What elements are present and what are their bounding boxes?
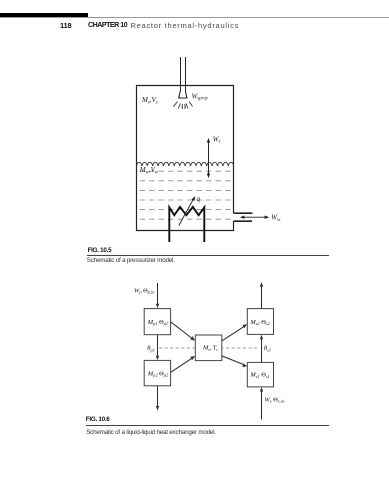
svg-text:Ws: Ws (213, 135, 221, 144)
svg-text:Wp Θp,in: Wp Θp,in (134, 287, 155, 295)
svg-text:θp1: θp1 (147, 345, 155, 352)
svg-text:Ww: Ww (271, 214, 281, 223)
svg-text:Mt, Tt: Mt, Tt (202, 345, 218, 352)
svg-text:Ws Θs,in: Ws Θs,in (265, 396, 285, 404)
svg-text:Mw,Vw: Mw,Vw (139, 166, 159, 175)
svg-text:q: q (197, 195, 201, 203)
svg-text:Ms,Vs: Ms,Vs (141, 96, 158, 105)
svg-text:θs1: θs1 (264, 345, 271, 352)
svg-text:Wspray: Wspray (192, 92, 209, 101)
